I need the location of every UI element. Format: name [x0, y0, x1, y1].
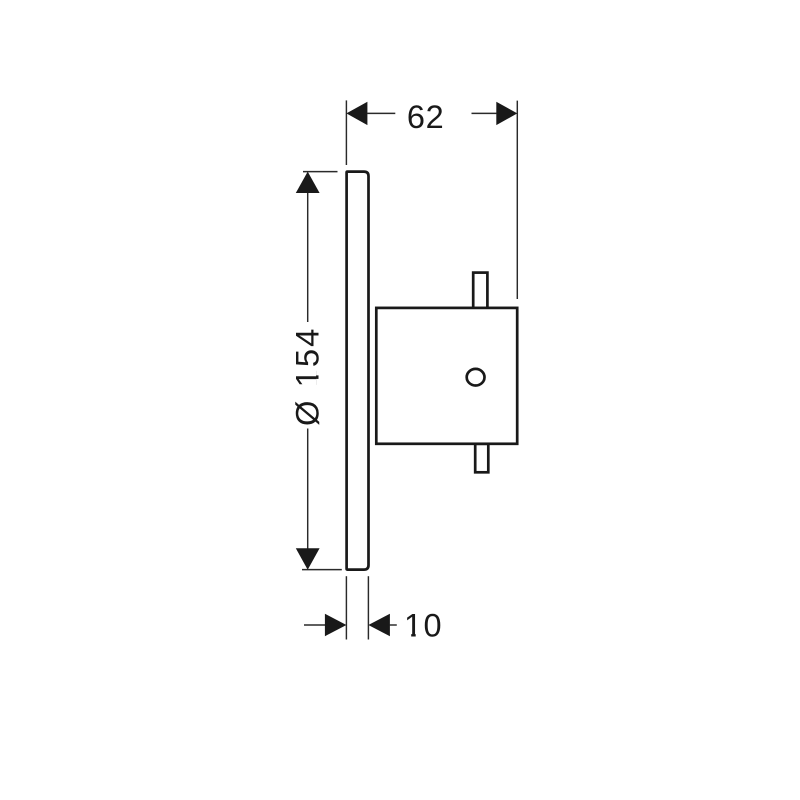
dimension 10: left extension line — [345, 576, 347, 639]
dimension 10: value label — [404, 608, 443, 644]
dimension 62: left extension line — [345, 100, 347, 165]
dimension 10: left arrow with tail — [304, 614, 346, 636]
svg-text:62: 62 — [407, 99, 445, 135]
dimension 62: left arrow — [346, 102, 395, 125]
dimension D154: bottom arrow — [296, 548, 320, 570]
dimension D154: top extension line — [303, 171, 338, 173]
dimension 10: right extension line — [367, 576, 369, 639]
dimension D154: dimension line lower segment — [307, 429, 309, 569]
dimension 10: right arrow with tail — [368, 614, 396, 636]
top spindle tab — [473, 273, 487, 309]
dimension 62: right extension line — [516, 101, 518, 299]
screw hole on valve body — [467, 369, 485, 386]
valve body — [376, 308, 517, 444]
dimension D154: bottom extension line — [302, 569, 342, 571]
wall plate (escutcheon) side profile — [347, 172, 369, 570]
dimension 62: right arrow — [472, 102, 518, 125]
svg-text:Ø 154: Ø 154 — [289, 327, 326, 426]
svg-text:10: 10 — [404, 608, 443, 644]
bottom spindle tab — [475, 444, 488, 473]
dimension 62: value label — [407, 99, 445, 135]
dimension D154: value label (rotated) — [289, 327, 326, 426]
dimension D154: top arrow — [296, 172, 320, 193]
dimension D154: dimension line upper segment — [307, 173, 309, 322]
